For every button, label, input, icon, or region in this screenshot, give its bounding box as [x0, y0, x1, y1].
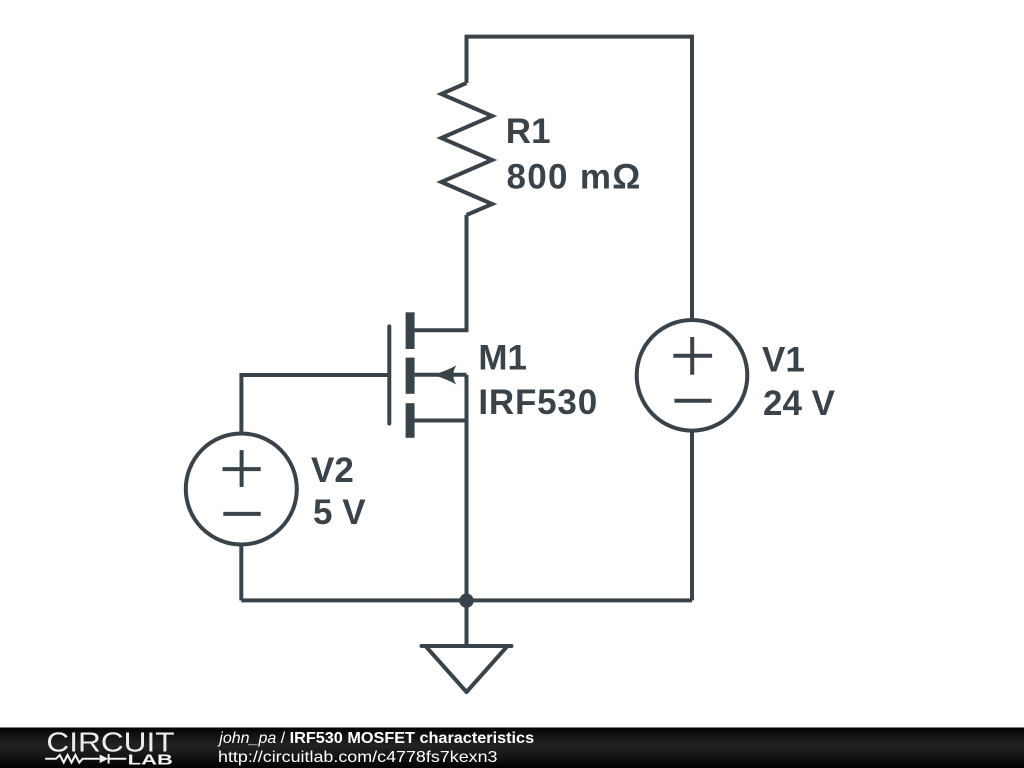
svg-text:john_pa / IRF530 MOSFET charac: john_pa / IRF530 MOSFET characteristics: [217, 730, 534, 747]
svg-text:V1: V1: [762, 340, 805, 379]
svg-text:M1: M1: [478, 338, 527, 377]
svg-text:5 V: 5 V: [313, 493, 366, 532]
svg-text:V2: V2: [311, 451, 354, 490]
svg-text:800 mΩ: 800 mΩ: [507, 157, 642, 196]
svg-text:LAB: LAB: [128, 752, 173, 768]
svg-text:http://circuitlab.com/c4778fs7: http://circuitlab.com/c4778fs7kexn3: [218, 749, 498, 766]
svg-text:24 V: 24 V: [763, 384, 836, 423]
svg-text:R1: R1: [506, 112, 551, 151]
svg-text:IRF530: IRF530: [478, 383, 598, 422]
